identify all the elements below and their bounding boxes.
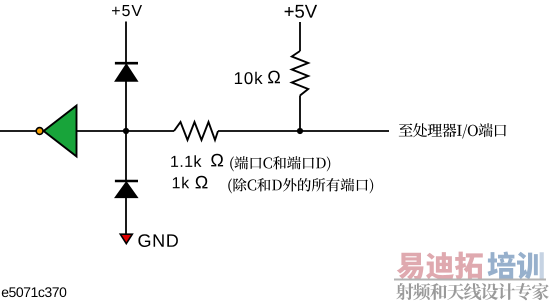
diode D2 triangle (anode below, pointing up) xyxy=(115,182,138,198)
wire: inverter output to resistor R1 xyxy=(77,130,175,132)
inverter input bubble (orange dot) xyxy=(36,128,43,135)
diode D1 triangle (anode below, pointing up) xyxy=(115,64,138,81)
value label 10k for R2 xyxy=(235,72,263,85)
note: ports C and D (Chinese) for 1.1k value xyxy=(230,156,330,171)
unit label Ohm (line 2) xyxy=(196,176,208,189)
unit label Ohm (line 1) xyxy=(211,154,223,167)
inverter U1 (green buffer triangle, pointing left) xyxy=(44,106,77,157)
wire: right +5V rail down to resistor R2 xyxy=(299,22,301,51)
watermark logo text (pink) xyxy=(397,252,483,280)
figure reference e5071c370 xyxy=(2,287,67,297)
wire: diode D2 down to ground arrow xyxy=(125,198,127,234)
value label 1.1k for R1 xyxy=(171,155,201,167)
+5V label (right rail) xyxy=(285,5,318,18)
watermark subtitle (gray) xyxy=(396,283,549,300)
unit label Ohm for R2 xyxy=(268,71,280,84)
+5V label (left rail) xyxy=(112,5,142,16)
GND label xyxy=(138,234,178,247)
wire: node A down to diode D2 xyxy=(125,131,127,181)
value label 1k for R1 xyxy=(173,177,189,189)
watermark divider line xyxy=(394,279,546,281)
diode D1 (clamp to +5V): cathode bar xyxy=(115,62,138,65)
note: all ports except C and D (Chinese) for 1k value xyxy=(228,178,373,193)
wire: main horizontal net from left edge to inverter input bubble xyxy=(0,130,36,132)
net label: to processor I/O port (Chinese) xyxy=(399,123,507,138)
watermark logo text (blue) xyxy=(488,252,544,280)
watermark logo highlight (lighter final stroke of last glyph) xyxy=(539,249,546,279)
wire: resistor R1 to node B and on to I/O port label xyxy=(218,130,389,132)
node B (junction dot, pull-up to I/O net) xyxy=(297,128,303,134)
wire: resistor R2 down to node B xyxy=(299,96,301,132)
wire: left +5V rail down to diode D1 xyxy=(125,22,127,64)
node A (junction dot at inverter output net) xyxy=(123,128,129,134)
resistor R2 (10k pull-up, vertical zigzag) xyxy=(292,51,308,96)
wire: diode D1 to node A xyxy=(125,81,127,131)
ground (red arrow symbol) xyxy=(120,234,132,243)
diode D2 (clamp to GND): cathode bar xyxy=(115,180,138,183)
resistor R1 (1.1k / 1k, horizontal zigzag) xyxy=(174,122,218,140)
